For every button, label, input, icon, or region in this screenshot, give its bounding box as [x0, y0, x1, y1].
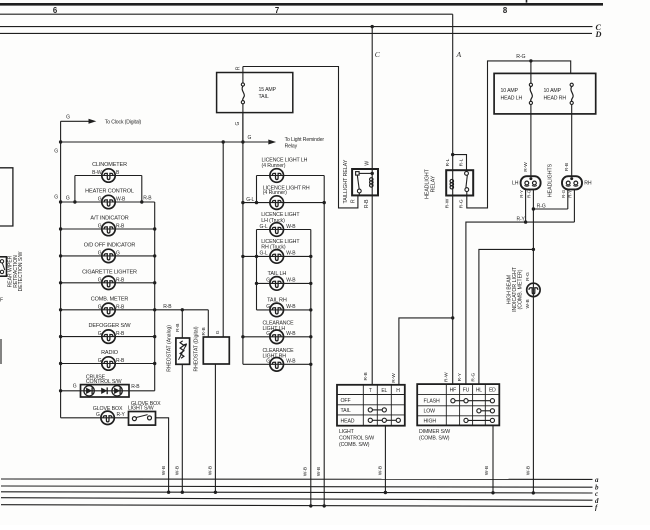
svg-text:W-B: W-B [286, 251, 296, 257]
svg-text:LH: LH [512, 181, 519, 187]
svg-text:G: G [235, 121, 241, 125]
svg-text:DIMMER S/W: DIMMER S/W [419, 429, 450, 435]
svg-text:RH (Truck): RH (Truck) [261, 245, 286, 251]
svg-text:RH: RH [584, 181, 592, 187]
svg-text:G: G [66, 196, 70, 202]
svg-text:R-G: R-G [537, 203, 546, 209]
svg-text:(4 Runner): (4 Runner) [263, 190, 287, 196]
svg-text:W-B: W-B [525, 466, 531, 475]
svg-text:W-B: W-B [161, 466, 167, 475]
svg-text:R: R [351, 199, 357, 203]
svg-text:R: R [235, 66, 241, 70]
svg-text:HEADLIGHT: HEADLIGHT [424, 168, 430, 199]
svg-text:G: G [54, 195, 58, 201]
svg-text:W-B: W-B [286, 359, 296, 365]
svg-text:(COMB. S/W): (COMB. S/W) [339, 442, 370, 448]
svg-text:A: A [456, 50, 462, 59]
svg-text:G: G [248, 135, 252, 141]
svg-text:R-G: R-G [525, 272, 531, 281]
svg-text:CIGARETTE LIGHTER: CIGARETTE LIGHTER [82, 269, 137, 275]
svg-text:HL: HL [476, 388, 482, 394]
svg-text:HEAD LH: HEAD LH [501, 95, 523, 101]
svg-text:R-B: R-B [175, 324, 181, 332]
svg-text:(4 Runner): (4 Runner) [262, 163, 286, 169]
svg-text:G: G [73, 384, 77, 390]
svg-text:W-B: W-B [286, 278, 296, 284]
svg-text:7: 7 [275, 6, 279, 15]
svg-text:DETECTION S/W: DETECTION S/W [18, 251, 24, 291]
svg-text:TAIL: TAIL [259, 94, 269, 100]
svg-text:R-Y: R-Y [457, 372, 463, 381]
svg-text:RADIO: RADIO [101, 350, 119, 356]
svg-text:O/D OFF INDICATOR: O/D OFF INDICATOR [84, 243, 136, 249]
svg-text:R-B: R-B [131, 384, 140, 390]
svg-text:HF: HF [450, 388, 456, 394]
svg-text:HIGH: HIGH [424, 418, 437, 424]
svg-text:FLASH: FLASH [424, 398, 440, 404]
svg-text:A/T INDICATOR: A/T INDICATOR [90, 216, 128, 222]
svg-text:ED: ED [489, 388, 496, 394]
svg-text:LIGHT LH: LIGHT LH [263, 326, 286, 332]
svg-text:(COMB. METER): (COMB. METER) [518, 269, 524, 309]
svg-text:DEFOGGER S/W: DEFOGGER S/W [89, 323, 132, 329]
svg-text:W-B: W-B [286, 224, 296, 230]
svg-text:To Light Reminder: To Light Reminder [285, 137, 325, 143]
svg-text:R-W: R-W [444, 372, 450, 382]
svg-text:W-B: W-B [484, 466, 490, 475]
svg-text:W-B: W-B [175, 466, 181, 475]
svg-text:CLINOMETER: CLINOMETER [92, 162, 127, 168]
svg-text:FU: FU [463, 388, 470, 394]
svg-text:R-L: R-L [459, 158, 465, 166]
svg-text:R-G: R-G [527, 189, 532, 198]
svg-text:D: D [595, 30, 602, 39]
svg-text:TAIL: TAIL [341, 408, 351, 414]
svg-text:R-B: R-B [363, 372, 369, 380]
svg-text:W-B: W-B [302, 467, 308, 476]
svg-text:10 AMP: 10 AMP [501, 88, 519, 94]
svg-text:W-B: W-B [286, 331, 296, 337]
svg-text:W-B: W-B [316, 467, 322, 476]
svg-text:(COMB. S/W): (COMB. S/W) [419, 435, 450, 441]
svg-text:TAIL LH: TAIL LH [268, 271, 287, 277]
svg-text:R-Y: R-Y [517, 216, 526, 222]
svg-text:LIGHT RH: LIGHT RH [263, 354, 287, 360]
svg-text:R-Y: R-Y [117, 412, 126, 418]
svg-text:RHEOSTAT (Analog): RHEOSTAT (Analog) [166, 325, 172, 372]
svg-text:W-B: W-B [525, 299, 531, 308]
svg-text:LIGHT: LIGHT [339, 429, 355, 435]
svg-text:G-L: G-L [260, 224, 268, 230]
svg-text:R-W: R-W [523, 162, 529, 172]
svg-text:Relay: Relay [285, 143, 298, 149]
svg-text:R-B: R-B [564, 163, 570, 171]
svg-text:G: G [54, 149, 58, 155]
svg-text:TAIL RH: TAIL RH [267, 297, 287, 303]
svg-text:10 AMP: 10 AMP [544, 88, 562, 94]
svg-text:EL: EL [381, 388, 387, 394]
svg-text:R-B: R-B [364, 199, 370, 208]
svg-text:G: G [266, 278, 270, 284]
svg-text:F: F [0, 298, 3, 304]
svg-text:LOW: LOW [424, 409, 436, 415]
svg-text:G: G [66, 115, 70, 121]
svg-text:T: T [369, 388, 372, 394]
svg-text:To Clock (Digital): To Clock (Digital) [105, 119, 142, 125]
svg-text:R-B: R-B [143, 196, 152, 202]
svg-text:W-B: W-B [286, 304, 296, 310]
svg-text:R-L: R-L [445, 158, 451, 166]
svg-text:G-L: G-L [260, 251, 268, 257]
svg-text:R-G: R-G [471, 373, 477, 382]
svg-text:R-G: R-G [561, 189, 566, 198]
svg-text:R-Y: R-Y [519, 190, 524, 198]
svg-text:CONTROL S/W: CONTROL S/W [339, 435, 374, 441]
svg-text:R-G: R-G [459, 199, 465, 208]
svg-text:LIGHT S/W: LIGHT S/W [128, 405, 154, 411]
svg-text:R-G: R-G [516, 54, 525, 60]
svg-text:HEAD: HEAD [341, 418, 355, 424]
svg-text:R-W: R-W [444, 198, 450, 208]
svg-text:RELAY: RELAY [431, 175, 437, 192]
svg-text:TAILLIGHT RELAY: TAILLIGHT RELAY [343, 159, 349, 203]
svg-text:R-B: R-B [163, 304, 172, 310]
svg-text:COMB. METER: COMB. METER [91, 296, 129, 302]
svg-text:CONTROL S/W: CONTROL S/W [86, 379, 122, 385]
svg-text:LH (Truck): LH (Truck) [261, 218, 285, 224]
svg-text:H: H [396, 388, 400, 394]
svg-text:G-L: G-L [246, 197, 254, 203]
svg-text:W-B: W-B [378, 466, 384, 475]
svg-text:W-B: W-B [208, 466, 214, 475]
svg-text:W: W [365, 161, 371, 166]
svg-text:HEATER CONTROL: HEATER CONTROL [85, 189, 134, 195]
svg-text:G: G [96, 412, 100, 418]
svg-text:GLOVE BOX: GLOVE BOX [93, 406, 123, 412]
svg-text:R-B: R-B [201, 327, 207, 335]
svg-text:15 AMP: 15 AMP [259, 87, 277, 93]
svg-text:G: G [215, 330, 221, 334]
svg-text:RHEOSTAT (Digital): RHEOSTAT (Digital) [194, 326, 200, 371]
svg-text:OFF: OFF [341, 398, 351, 404]
svg-text:R-W: R-W [391, 373, 397, 383]
svg-text:R-Y: R-Y [568, 190, 573, 198]
svg-text:HEAD RH: HEAD RH [544, 95, 567, 101]
svg-text:G: G [266, 304, 270, 310]
svg-text:HEADLIGHTS: HEADLIGHTS [548, 163, 554, 197]
